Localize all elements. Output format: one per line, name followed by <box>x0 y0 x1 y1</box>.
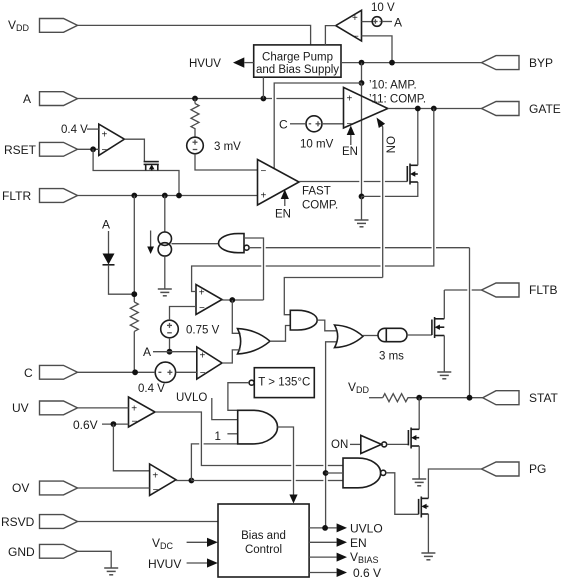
pin UV <box>12 401 78 415</box>
wire OR1 out to AND2 <box>270 326 290 342</box>
comparator OV <box>150 464 176 496</box>
svg-text:+: + <box>200 351 206 362</box>
node OV out <box>189 478 195 484</box>
wire VDD to charge pump <box>78 25 311 45</box>
wire M2 source to ground <box>443 336 445 372</box>
wire 0.75V source bottom to A node <box>169 338 171 352</box>
node A-0.4comp <box>167 349 173 355</box>
svg-text:Control: Control <box>245 544 282 556</box>
svg-text:1: 1 <box>215 431 221 443</box>
wire bias out 0.6V <box>309 566 381 580</box>
charge pump box <box>254 45 341 77</box>
pin BYP <box>482 56 554 70</box>
ground G2 <box>158 289 172 296</box>
wire NAND out to M4 gate <box>386 473 419 515</box>
svg-text:−: − <box>353 32 359 43</box>
pin STAT <box>483 391 559 405</box>
gate NAND PG <box>343 458 386 488</box>
svg-text:+: + <box>131 404 137 415</box>
wire A line <box>78 98 344 100</box>
pin C <box>24 365 78 380</box>
wire 0.75V to minus input <box>170 307 197 321</box>
node FLTR-1 <box>131 193 137 199</box>
wire current source branch <box>164 196 166 233</box>
svg-text:A: A <box>23 92 31 106</box>
diode D1 <box>103 254 115 265</box>
wire bias out UVLO <box>309 522 383 536</box>
wire buffer plus input <box>362 21 373 23</box>
wire GATE monitor line to 0.75V plus <box>192 109 434 292</box>
svg-text:ON: ON <box>331 439 348 451</box>
svg-text:0.75 V: 0.75 V <box>186 325 220 337</box>
label EN fastcomp arrow <box>275 190 291 221</box>
wire AND3 output to bias box <box>278 427 298 504</box>
box temp T>135C <box>249 368 314 398</box>
label ON inverter <box>331 439 361 451</box>
svg-text:+: + <box>199 288 205 299</box>
HVUV arrow <box>189 57 254 70</box>
wire buffer minus to BYP line <box>362 36 393 63</box>
svg-text:−: − <box>153 485 159 496</box>
pin A <box>23 92 78 106</box>
wire OV comp output <box>176 480 191 482</box>
node A-resistor <box>192 96 198 102</box>
wire buffer output to charge pump <box>325 26 335 45</box>
svg-text:ON: ON <box>384 136 396 153</box>
svg-text:0.4 V: 0.4 V <box>138 383 165 395</box>
svg-text:COMP.: COMP. <box>302 200 338 212</box>
svg-text:VDD: VDD <box>348 380 370 395</box>
wire M3 drain <box>418 398 420 430</box>
node BYP-2 <box>389 60 395 66</box>
svg-text:Bias and: Bias and <box>241 530 286 542</box>
label EN amp arrow <box>342 126 358 159</box>
svg-text:3 mV: 3 mV <box>214 141 241 153</box>
svg-text:’10: AMP.: ’10: AMP. <box>369 80 417 92</box>
resistor R3 <box>383 394 412 402</box>
gate AND2 <box>290 310 317 330</box>
label VDD stat <box>348 380 383 398</box>
source 10mV <box>300 116 334 151</box>
svg-text:A: A <box>143 345 151 359</box>
node GATE-1 <box>415 106 421 112</box>
ground G6 <box>104 568 118 575</box>
svg-text:FLTR: FLTR <box>2 189 31 203</box>
pin OV <box>12 481 78 495</box>
inverter ON <box>361 435 387 453</box>
svg-text:EN: EN <box>275 209 291 221</box>
svg-text:+: + <box>347 94 353 105</box>
node FLTR-3 <box>176 193 182 199</box>
wire current source to ANDL <box>172 243 219 245</box>
svg-text:−: − <box>261 166 267 177</box>
wire ANDL bubble line to STAT <box>249 248 469 398</box>
node C-line <box>132 369 138 375</box>
svg-text:−: − <box>132 417 138 428</box>
op-amp RSET A1 <box>99 124 125 156</box>
wire OV out to AND3 bottom <box>191 444 237 481</box>
svg-text:UVLO: UVLO <box>176 392 207 404</box>
wire temp to AND3 top <box>228 383 249 411</box>
comparator 0.4V U3 <box>197 347 222 379</box>
svg-text:A: A <box>102 218 110 232</box>
wire bias out EN <box>309 536 367 550</box>
resistor R2 <box>130 302 138 372</box>
transistor M3 <box>408 428 419 449</box>
label VDC arrow <box>152 536 218 551</box>
svg-text:0.4 V: 0.4 V <box>61 124 88 136</box>
wire M4 source to ground <box>427 514 429 553</box>
wire 0.6V to OV top input <box>113 424 149 471</box>
node diode junction <box>131 291 137 297</box>
svg-text:HVUV: HVUV <box>148 557 181 571</box>
svg-text:PG: PG <box>529 462 546 476</box>
svg-text:HVUV: HVUV <box>189 58 221 70</box>
wire 10mV to amp minus <box>322 123 344 125</box>
svg-text:+: + <box>152 471 158 482</box>
wire M2 drain to FLTB <box>443 290 445 319</box>
pin FLTR <box>2 189 78 203</box>
wire BYP down to node 83 <box>361 63 363 83</box>
svg-text:+: + <box>352 13 358 24</box>
ground G1 <box>355 196 369 226</box>
pin GATE <box>482 102 561 117</box>
svg-text:Charge Pump: Charge Pump <box>262 52 333 64</box>
wire 0.75V comp output <box>222 299 264 301</box>
comparator 0.75V U2 <box>196 285 222 315</box>
pin PG <box>482 462 547 476</box>
wire RSVD to bias box <box>78 521 219 523</box>
pin RSVD <box>1 515 78 529</box>
gate AND3 <box>238 410 278 444</box>
wire ON to AND2 top input <box>284 278 382 315</box>
node UVLO-NAND <box>323 470 329 476</box>
pin RSET <box>4 142 78 157</box>
node GATE-2 <box>431 106 437 112</box>
wire C line <box>78 371 156 373</box>
node STAT-2 <box>467 395 473 401</box>
wire RSET feedback <box>93 149 179 195</box>
wire STAT line <box>412 397 483 399</box>
svg-text:RSVD: RSVD <box>1 515 35 529</box>
wire PG line <box>428 469 481 498</box>
wire AND2 out to OR2 <box>317 320 337 331</box>
wire FLTR down branch <box>133 196 135 303</box>
svg-text:10 V: 10 V <box>371 2 395 14</box>
wire BYP line <box>341 62 482 64</box>
svg-text:T > 135°C: T > 135°C <box>258 377 310 389</box>
label HVUV arrow bottom <box>148 557 218 571</box>
node 83 <box>359 80 365 86</box>
wire GATE line <box>388 108 482 110</box>
source 0.75V <box>161 320 220 338</box>
comparator UV <box>129 397 156 428</box>
source 3mV <box>187 137 241 154</box>
wire UVLO node to NAND input2 <box>326 472 343 474</box>
transistor M2 <box>432 317 444 338</box>
svg-text:EN: EN <box>342 146 358 158</box>
wire FLTB line <box>444 289 481 291</box>
wire OV out to NAND input3 <box>191 480 343 482</box>
svg-text:C: C <box>279 118 288 132</box>
node STAT-1 <box>416 395 422 401</box>
wire FAST COMP output to M1 gate <box>299 181 407 183</box>
svg-text:−: − <box>200 368 206 379</box>
wire UV comp output to NAND input1 <box>155 412 343 466</box>
svg-text:+: + <box>102 130 108 141</box>
svg-text:GND: GND <box>8 545 35 559</box>
node 0.6V <box>111 421 117 427</box>
label UVLO <box>176 392 238 420</box>
node mosfet source ground <box>359 194 365 200</box>
wire GND pin to ground <box>78 551 112 567</box>
wire M3 source to ground <box>418 446 420 479</box>
svg-text:VDC: VDC <box>152 536 174 551</box>
resistor R1 <box>191 99 199 138</box>
node A-chargepump <box>261 96 267 102</box>
svg-text:UV: UV <box>12 401 29 415</box>
wire M1 drain to GATE <box>417 109 419 166</box>
svg-text:EN: EN <box>350 536 367 550</box>
oneshot 3ms <box>378 328 407 362</box>
label 1 buffer <box>215 431 238 443</box>
gate OR1 <box>238 329 271 354</box>
wire oneshot to M2 gate <box>407 334 432 336</box>
pin GND <box>8 544 78 559</box>
wire current source to ground <box>164 256 166 288</box>
label A near 0.4V comp <box>143 345 197 359</box>
svg-text:A: A <box>394 16 402 30</box>
buffer amp U10V <box>336 10 362 42</box>
wire inverter to M3 gate <box>387 443 409 445</box>
label C internal <box>279 118 306 132</box>
node BYP-1 <box>359 60 365 66</box>
gate OR2 <box>335 325 364 348</box>
node RSET <box>90 146 96 152</box>
wire diode to FLTR branch <box>109 265 135 294</box>
label 0.4V top <box>61 124 99 136</box>
comparator FAST COMP <box>258 160 339 212</box>
svg-text:VBIAS: VBIAS <box>350 550 379 565</box>
node bias UVLO <box>322 525 328 531</box>
wire source to A label <box>382 16 402 30</box>
wire 0.75out to OR1 top input <box>232 300 240 333</box>
wire OV pin to bottom input <box>78 487 150 489</box>
svg-text:STAT: STAT <box>529 391 559 405</box>
transistor M1 <box>407 164 418 185</box>
wire UV pin to plus <box>78 407 129 409</box>
wire UVLO vertical to OR2 bottom <box>326 342 338 528</box>
svg-text:RSET: RSET <box>4 143 37 157</box>
svg-text:and Bias Supply: and Bias Supply <box>256 64 339 76</box>
source 10V <box>371 2 395 26</box>
wire A to diode <box>108 231 110 254</box>
label 0.6V <box>73 418 129 432</box>
wire A1 output to M5 gate <box>124 139 144 161</box>
source 0.4V <box>138 362 176 395</box>
gate ANDL mirrored <box>219 234 250 253</box>
svg-text:VDD: VDD <box>8 18 30 33</box>
svg-text:UVLO: UVLO <box>350 522 383 536</box>
label ON arrow rotated <box>377 118 396 278</box>
transistor M5 <box>144 162 159 171</box>
ground G3 <box>437 372 451 379</box>
wire OR2 to oneshot <box>363 335 378 337</box>
svg-text:BYP: BYP <box>529 56 553 70</box>
svg-text:C: C <box>24 366 33 380</box>
wire charge pump bottom to A <box>262 77 264 98</box>
svg-text:−: − <box>102 145 108 156</box>
svg-text:+: + <box>261 191 267 202</box>
wire 3mV to FAST minus <box>195 154 258 170</box>
wire node83 down through amp to ground node <box>361 83 363 196</box>
wire 0.4V source to minus <box>176 371 197 373</box>
wire bias out VBIAS <box>309 550 378 565</box>
wire 0.4V comp out to OR1 bottom <box>222 350 241 363</box>
current source I1 <box>147 231 171 257</box>
pin VDD <box>8 18 78 33</box>
wire FLTR line <box>78 195 258 197</box>
svg-text:3 ms: 3 ms <box>379 351 404 363</box>
ground G4 <box>412 479 426 486</box>
svg-text:0.6V: 0.6V <box>73 418 98 432</box>
pin FLTB <box>482 283 558 297</box>
box bias and control <box>218 504 309 577</box>
wire node to M1 source <box>362 182 418 196</box>
wire ANDL top input from 0.75V out <box>244 238 264 300</box>
svg-text:0.6 V: 0.6 V <box>353 566 381 580</box>
node FLTR-2 <box>162 193 168 199</box>
transistor M4 <box>419 497 429 518</box>
svg-text:FLTB: FLTB <box>529 283 557 297</box>
svg-text:GATE: GATE <box>529 102 561 116</box>
ground G5 <box>421 553 435 560</box>
svg-text:OV: OV <box>12 481 29 495</box>
op-amp main AMP <box>344 80 427 131</box>
svg-text:FAST: FAST <box>302 186 331 198</box>
node 0.75V out <box>229 297 235 303</box>
wire RSET to minus <box>78 148 99 150</box>
svg-text:10 mV: 10 mV <box>300 139 334 151</box>
svg-text:−: − <box>199 303 205 314</box>
wire node83 left and down to FAST COMP top <box>274 83 361 169</box>
svg-text:’11: COMP.: ’11: COMP. <box>369 94 426 106</box>
